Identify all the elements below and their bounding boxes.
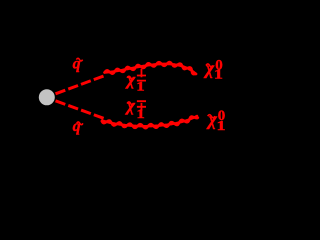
chargino wavy line bottom xyxy=(102,116,197,126)
svg-text:0: 0 xyxy=(215,57,223,73)
label neutralino top right xyxy=(203,57,223,82)
svg-text:χ: χ xyxy=(125,70,136,89)
svg-text:0: 0 xyxy=(218,108,226,124)
blob: production vertex xyxy=(39,89,55,105)
svg-text:1: 1 xyxy=(136,80,144,94)
label squark top: q-tilde xyxy=(73,56,83,73)
squark propagator top (dashed) xyxy=(56,76,106,94)
label neutralino bottom right xyxy=(206,108,226,133)
label chargino-minus (bottom middle) xyxy=(125,96,146,122)
svg-text:χ: χ xyxy=(125,96,136,115)
label chargino-plus (top middle) xyxy=(125,69,146,94)
squark propagator bottom (dashed) xyxy=(56,101,106,119)
chargino wavy line top xyxy=(105,64,197,74)
label squark bottom: q-tilde xyxy=(73,118,83,135)
svg-text:q: q xyxy=(73,118,81,135)
